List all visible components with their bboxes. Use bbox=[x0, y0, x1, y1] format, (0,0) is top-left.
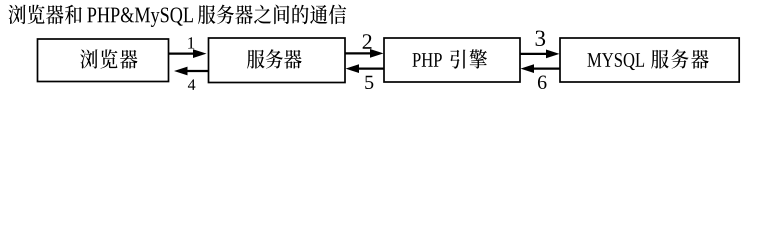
box3 label text PHP bbox=[412, 53, 441, 67]
box4 label text MYSQL bbox=[587, 53, 644, 70]
title char 通 bbox=[310, 5, 327, 24]
arrow 5 (PHP engine to server) bbox=[358, 67, 385, 69]
label 2 bbox=[363, 34, 372, 49]
title char 器 bbox=[46, 5, 63, 24]
label 6 bbox=[538, 76, 547, 89]
box1 label char 器 bbox=[120, 50, 138, 69]
arrow 2 (server to PHP engine) bbox=[345, 52, 372, 54]
title char 务 bbox=[217, 5, 234, 25]
box MYSQL 服务器 (MySQL server) bbox=[560, 38, 739, 82]
box2 label char 器 bbox=[284, 50, 302, 69]
box4 label char 服 bbox=[651, 50, 669, 69]
title char 间 bbox=[274, 5, 289, 24]
box2 label char 服 bbox=[247, 50, 265, 69]
box 服务器 (server) bbox=[209, 38, 346, 83]
title char 服 bbox=[198, 5, 215, 24]
box2 label char 务 bbox=[266, 49, 283, 68]
title char 之 bbox=[254, 5, 271, 24]
title char 信 bbox=[329, 5, 346, 25]
arrow 1 (browser to server) bbox=[169, 52, 195, 54]
box1 label char 浏 bbox=[80, 49, 97, 68]
arrow 4 (server to browser) bbox=[186, 70, 209, 72]
label 1 bbox=[188, 37, 194, 48]
title char 览 bbox=[28, 5, 45, 25]
title char 浏 bbox=[9, 5, 26, 24]
arrow 6 (MySQL server to PHP engine) bbox=[533, 67, 561, 69]
label 4 bbox=[188, 79, 195, 90]
box1 label char 览 bbox=[100, 49, 117, 68]
arrow 3 (PHP engine to MySQL server) bbox=[520, 53, 548, 55]
title text PHP&MySQL bbox=[87, 7, 193, 27]
label 3 bbox=[536, 31, 546, 46]
label 5 bbox=[365, 76, 373, 89]
title char 器 bbox=[235, 5, 252, 24]
box4 label char 务 bbox=[671, 49, 688, 68]
box 浏览器 (browser) bbox=[38, 39, 169, 82]
box PHP 引擎 (PHP engine) bbox=[384, 38, 520, 82]
title char 和 bbox=[65, 5, 82, 24]
title char 的 bbox=[292, 5, 308, 24]
box4 label char 器 bbox=[691, 50, 709, 69]
box3 label char 擎 bbox=[470, 49, 487, 68]
box3 label char 引 bbox=[450, 50, 465, 69]
